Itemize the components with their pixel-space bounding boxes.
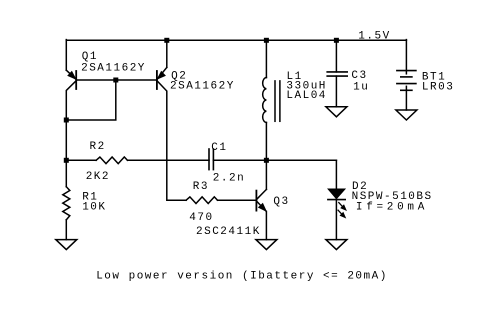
svg-text:C3: C3 [351,70,367,82]
svg-text:2SA1162Y: 2SA1162Y [170,81,235,93]
svg-text:Q3: Q3 [273,196,289,208]
svg-text:10K: 10K [82,201,106,213]
svg-text:470: 470 [189,212,213,224]
svg-text:If=20mA: If=20mA [356,202,428,214]
svg-text:2SA1162Y: 2SA1162Y [81,63,146,75]
svg-text:R3: R3 [193,181,209,193]
svg-text:LR03: LR03 [422,82,454,94]
svg-text:C1: C1 [211,142,227,154]
svg-text:R2: R2 [90,141,106,153]
svg-text:2K2: 2K2 [86,171,110,183]
svg-text:2SC2411K: 2SC2411K [196,226,261,238]
svg-text:Q1: Q1 [82,51,98,63]
svg-text:1u: 1u [353,82,369,94]
svg-text:LAL04: LAL04 [286,90,327,102]
svg-text:1.5V: 1.5V [358,31,390,43]
svg-text:2.2n: 2.2n [213,173,245,185]
svg-text:Low power version (Ibattery <=: Low power version (Ibattery <= 20mA) [96,271,388,283]
